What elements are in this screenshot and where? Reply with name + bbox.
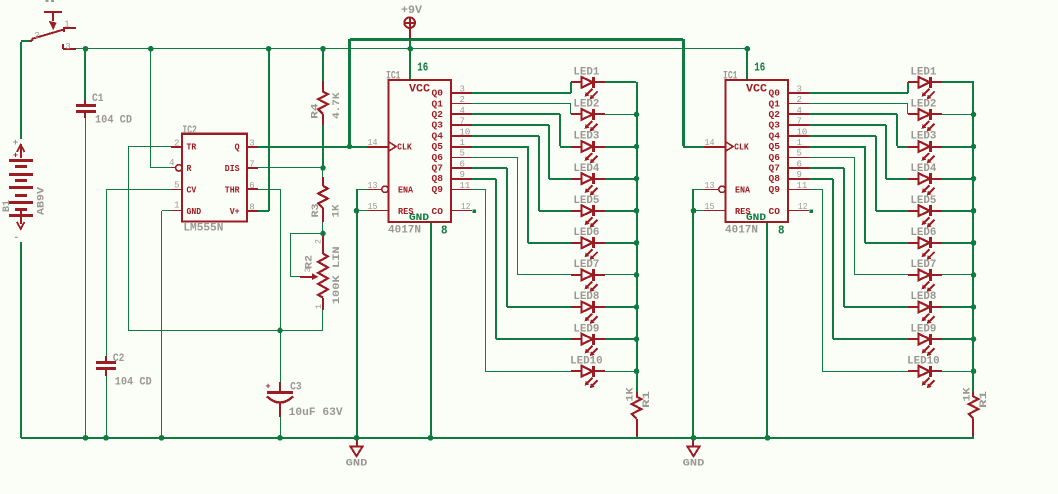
svg-text:Q9: Q9 xyxy=(769,184,781,195)
svg-text:7: 7 xyxy=(460,117,465,127)
svg-text:R1: R1 xyxy=(641,391,653,408)
svg-text:1: 1 xyxy=(314,304,324,309)
svg-text:AB9V: AB9V xyxy=(36,186,48,215)
svg-text:+: + xyxy=(265,381,270,391)
svg-text:1: 1 xyxy=(460,138,465,148)
svg-text:4017N: 4017N xyxy=(388,225,421,237)
svg-text:16: 16 xyxy=(754,60,765,74)
svg-text:13: 13 xyxy=(705,181,715,191)
svg-text:LED9: LED9 xyxy=(573,323,599,335)
svg-text:V+: V+ xyxy=(230,206,240,217)
svg-text:4: 4 xyxy=(460,106,465,116)
svg-text:Q9: Q9 xyxy=(432,184,444,195)
svg-text:LED4: LED4 xyxy=(910,163,936,175)
svg-text:11: 11 xyxy=(797,181,808,191)
svg-text:3: 3 xyxy=(303,268,313,273)
svg-text:2: 2 xyxy=(460,95,465,105)
svg-text:15: 15 xyxy=(368,202,378,212)
svg-text:C2: C2 xyxy=(113,353,125,365)
svg-text:1K: 1K xyxy=(962,387,974,402)
svg-text:LED9: LED9 xyxy=(910,323,936,335)
svg-text:1: 1 xyxy=(174,201,179,211)
svg-text:VCC: VCC xyxy=(746,83,767,95)
svg-text:11: 11 xyxy=(460,181,471,191)
svg-text:7: 7 xyxy=(797,117,802,127)
svg-text:CO: CO xyxy=(769,206,781,217)
svg-text:Q3: Q3 xyxy=(769,120,781,131)
svg-text:5: 5 xyxy=(460,149,465,159)
svg-text:LED3: LED3 xyxy=(910,131,936,143)
svg-text:LED6: LED6 xyxy=(910,227,936,239)
svg-text:+9V: +9V xyxy=(401,5,422,17)
svg-text:LED10: LED10 xyxy=(570,355,603,367)
svg-text:Q3: Q3 xyxy=(432,120,444,131)
svg-text:8: 8 xyxy=(249,203,254,213)
svg-text:Q6: Q6 xyxy=(432,152,444,163)
svg-text:16: 16 xyxy=(417,60,428,74)
svg-text:DIS: DIS xyxy=(225,163,240,174)
svg-text:C3: C3 xyxy=(290,381,302,393)
svg-text:LED2: LED2 xyxy=(573,99,599,111)
svg-text:2: 2 xyxy=(34,31,39,41)
svg-text:100K LIN: 100K LIN xyxy=(331,246,343,304)
svg-text:5: 5 xyxy=(797,149,802,159)
svg-text:GND: GND xyxy=(187,206,202,217)
svg-text:Q1: Q1 xyxy=(432,98,444,109)
svg-text:+: + xyxy=(13,151,18,161)
svg-text:LED5: LED5 xyxy=(910,195,936,207)
svg-text:Q7: Q7 xyxy=(769,163,781,174)
svg-text:Q5: Q5 xyxy=(432,141,444,152)
svg-text:+: + xyxy=(13,137,19,148)
svg-text:R4: R4 xyxy=(310,103,322,119)
svg-text:Q0: Q0 xyxy=(769,88,781,99)
svg-text:GND: GND xyxy=(683,457,705,469)
svg-text:9: 9 xyxy=(460,170,465,180)
svg-text:LED8: LED8 xyxy=(573,291,599,303)
svg-text:13: 13 xyxy=(368,181,378,191)
svg-text:10: 10 xyxy=(460,127,471,137)
svg-text:8: 8 xyxy=(441,224,448,238)
svg-text:CV: CV xyxy=(187,185,197,196)
svg-text:7: 7 xyxy=(249,160,254,170)
svg-text:10: 10 xyxy=(797,127,808,137)
svg-text:IC1: IC1 xyxy=(386,70,401,82)
svg-text:CLK: CLK xyxy=(734,142,749,153)
svg-text:2: 2 xyxy=(314,239,324,244)
svg-text:Q4: Q4 xyxy=(432,130,444,141)
svg-text:B1: B1 xyxy=(1,200,13,212)
svg-text:2: 2 xyxy=(797,95,802,105)
svg-text:1K: 1K xyxy=(331,204,343,218)
svg-text:3: 3 xyxy=(797,85,802,95)
svg-text:LED1: LED1 xyxy=(910,67,936,79)
svg-text:4: 4 xyxy=(797,106,802,116)
svg-text:LED1: LED1 xyxy=(573,67,599,79)
svg-text:Q4: Q4 xyxy=(769,130,781,141)
svg-text:RES: RES xyxy=(398,206,414,217)
svg-text:LED4: LED4 xyxy=(573,163,599,175)
svg-text:2: 2 xyxy=(174,138,179,148)
svg-text:GND: GND xyxy=(346,457,368,469)
svg-text:IC1: IC1 xyxy=(723,70,738,82)
svg-text:LED5: LED5 xyxy=(573,195,599,207)
svg-text:LED6: LED6 xyxy=(573,227,599,239)
svg-text:R2: R2 xyxy=(304,255,316,269)
svg-text:CO: CO xyxy=(432,206,444,217)
svg-text:RES: RES xyxy=(735,206,751,217)
svg-text:12: 12 xyxy=(461,202,471,212)
svg-text:ENA: ENA xyxy=(735,185,750,196)
svg-text:Q1: Q1 xyxy=(769,98,781,109)
svg-text:4.7K: 4.7K xyxy=(331,92,343,119)
svg-text:12: 12 xyxy=(798,202,808,212)
svg-text:5: 5 xyxy=(174,181,179,191)
svg-text:LED8: LED8 xyxy=(910,291,936,303)
svg-text:VCC: VCC xyxy=(409,83,430,95)
svg-text:8: 8 xyxy=(778,224,785,238)
svg-text:14: 14 xyxy=(368,138,378,148)
svg-text:Q6: Q6 xyxy=(769,152,781,163)
svg-text:1: 1 xyxy=(64,19,69,29)
svg-text:Q8: Q8 xyxy=(769,173,781,184)
svg-text:14: 14 xyxy=(705,138,715,148)
svg-text:Q2: Q2 xyxy=(769,109,781,120)
svg-text:3: 3 xyxy=(460,85,465,95)
svg-text:3: 3 xyxy=(65,42,70,52)
svg-text:R1: R1 xyxy=(978,391,990,408)
svg-text:Q0: Q0 xyxy=(432,88,444,99)
svg-text:ENA: ENA xyxy=(398,185,413,196)
svg-text:Q2: Q2 xyxy=(432,109,444,120)
svg-text:Q7: Q7 xyxy=(432,163,444,174)
svg-text:LED7: LED7 xyxy=(910,259,936,271)
svg-text:CLK: CLK xyxy=(397,142,412,153)
svg-text:Q8: Q8 xyxy=(432,173,444,184)
svg-text:THR: THR xyxy=(225,185,240,196)
svg-text:C1: C1 xyxy=(92,93,104,105)
svg-text:104 CD: 104 CD xyxy=(95,114,132,126)
svg-text:LED2: LED2 xyxy=(910,99,936,111)
svg-text:R: R xyxy=(187,163,192,174)
svg-text:IC2: IC2 xyxy=(182,125,197,137)
svg-text:Q: Q xyxy=(235,142,240,153)
svg-text:R3: R3 xyxy=(310,204,322,218)
svg-text:Q5: Q5 xyxy=(769,141,781,152)
svg-text:3: 3 xyxy=(249,138,254,148)
svg-text:1K: 1K xyxy=(625,387,637,402)
svg-text:4: 4 xyxy=(169,158,174,168)
svg-text:104 CD: 104 CD xyxy=(115,376,152,388)
svg-text:1: 1 xyxy=(797,138,802,148)
svg-text:6: 6 xyxy=(460,159,465,169)
svg-text:15: 15 xyxy=(705,202,715,212)
svg-text:6: 6 xyxy=(797,159,802,169)
svg-text:LED3: LED3 xyxy=(573,131,599,143)
svg-text:6: 6 xyxy=(249,181,254,191)
svg-text:LM555N: LM555N xyxy=(183,222,223,234)
svg-text:4017N: 4017N xyxy=(725,225,758,237)
svg-text:-: - xyxy=(13,233,19,244)
svg-text:LED10: LED10 xyxy=(907,355,940,367)
svg-text:9: 9 xyxy=(797,170,802,180)
svg-text:TR: TR xyxy=(187,142,197,153)
svg-text:10uF 63V: 10uF 63V xyxy=(289,407,343,419)
svg-text:LED7: LED7 xyxy=(573,259,599,271)
